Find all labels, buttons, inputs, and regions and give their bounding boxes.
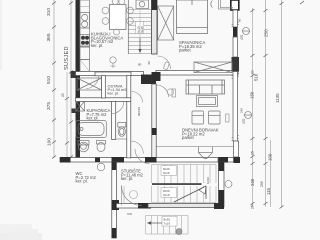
right wall window upper [233, 10, 238, 27]
lower stairs upper flight treads [152, 165, 217, 184]
wall bottom right corner dark [234, 157, 241, 163]
dining chair top b [119, 0, 125, 5]
svg-text:910: 910 [46, 76, 52, 84]
wc north line [116, 138, 127, 140]
stair hall label [121, 169, 144, 182]
closet west wall [102, 76, 106, 99]
stair railing line [127, 0, 129, 54]
svg-text:9x19: 9x19 [163, 171, 170, 175]
svg-text:375: 375 [46, 102, 52, 110]
living south edge line [157, 146, 234, 148]
svg-text:90: 90 [238, 18, 242, 22]
svg-text:9x25: 9x25 [140, 26, 144, 33]
entrance door arc [122, 186, 142, 206]
right wall lower white segment [234, 141, 239, 157]
bedroom label [179, 40, 206, 53]
wc door arc [131, 141, 144, 154]
wardrobe X left [158, 6, 174, 40]
wall shelf left [172, 89, 176, 97]
top landing fixture [136, 0, 149, 9]
right dimension line fourth [270, 140, 272, 207]
exterior steps circle [176, 229, 182, 235]
svg-text:100: 100 [268, 153, 273, 161]
svg-text:470: 470 [240, 34, 244, 40]
entrance south wall [116, 204, 148, 209]
exterior steps treads [146, 216, 189, 235]
hatched wall block kitchen/living corner [141, 75, 156, 85]
dining table [110, 5, 127, 30]
left exterior wall [76, 0, 81, 162]
ostava east wall [127, 76, 131, 99]
stair flight label box [136, 22, 144, 34]
bedroom south wall [156, 71, 238, 76]
section circle upper right [242, 28, 250, 35]
svg-text:parket: parket [182, 135, 194, 140]
svg-text:9x19: 9x19 [163, 193, 170, 197]
stair break diagonal [174, 186, 206, 202]
svg-text:115: 115 [266, 187, 271, 195]
svg-text:7x19: 7x19 [164, 221, 171, 225]
living west wall [152, 84, 156, 160]
toilet [118, 123, 126, 137]
right dimension line inner [252, 8, 254, 207]
svg-text:365: 365 [46, 33, 52, 41]
entrance south wall dark block [138, 203, 151, 209]
main south wall band [60, 158, 218, 163]
kitchen sink [80, 13, 90, 29]
wall bottom right connector [219, 158, 234, 163]
svg-text:150: 150 [250, 91, 255, 99]
bathroom label [87, 108, 111, 121]
divider wall dark top [152, 0, 158, 10]
svg-text:SUSJED: SUSJED [64, 46, 70, 70]
entrance floor circle [130, 191, 138, 199]
drain mark [72, 109, 76, 114]
svg-text:ker. pl.: ker. pl. [121, 176, 133, 181]
stair mid landing bold line [152, 183, 202, 185]
svg-text:ker. pl.: ker. pl. [76, 179, 88, 184]
south wall dark block left [112, 157, 125, 163]
radiator right [226, 114, 230, 122]
armchair right [209, 111, 221, 124]
svg-text:310: 310 [46, 8, 52, 16]
stair flight labels lower [161, 166, 177, 176]
svg-text:220: 220 [250, 178, 255, 186]
kitchen room label [91, 32, 123, 48]
section circle mid right [244, 112, 252, 119]
fireplace niche [199, 147, 213, 159]
stair hall east wall dark top [219, 162, 225, 171]
svg-text:ker. pl.: ker. pl. [87, 116, 99, 121]
exterior steps labels [162, 216, 177, 226]
bedroom door leaf [163, 62, 169, 70]
kitchen fridge [80, 60, 90, 72]
living door arc [157, 85, 169, 97]
page edge artifacts [0, 224, 32, 240]
hall closet X [77, 78, 102, 90]
bedroom NE corner step wall [218, 0, 233, 9]
entrance west wall dark mid [112, 200, 120, 210]
manhole circle lower right [225, 181, 232, 188]
wall bottom right connector dark left [219, 157, 229, 163]
dining chair left1 [102, 7, 109, 14]
svg-text:20: 20 [251, 70, 255, 74]
stairs/kitchen divider wall [152, 0, 158, 54]
chimney block top right [231, 0, 239, 10]
washing machine [76, 102, 85, 112]
armchair left [192, 111, 204, 124]
wc east wall [127, 101, 131, 157]
svg-text:100: 100 [47, 138, 53, 146]
stair hall south wall dark right [214, 203, 224, 209]
svg-text:90/210: 90/210 [137, 106, 141, 116]
sofa [186, 80, 225, 94]
left dimension labels [46, 8, 65, 146]
left dimension line outer [53, 0, 55, 158]
svg-text:250: 250 [264, 29, 269, 37]
svg-text:25: 25 [251, 205, 255, 209]
entrance west wall dark top [112, 162, 117, 170]
dining chair right2 [127, 18, 134, 25]
right wall solid upper [233, 27, 238, 37]
left dimension line inner [70, 0, 72, 158]
ostava label [108, 84, 127, 96]
svg-text:VIS: VIS [127, 212, 132, 216]
corridor door arc lower [135, 149, 150, 164]
svg-text:295: 295 [260, 181, 264, 187]
manhole circle left [97, 163, 105, 171]
right wall window frame ticks [232, 22, 240, 141]
left dimension ticks [52, 2, 73, 159]
left dimension line mid [66, 72, 68, 158]
svg-text:1135: 1135 [275, 93, 280, 103]
south wall dark block mid [145, 157, 157, 163]
right dimension ticks [251, 2, 284, 209]
stair hall south wall [148, 204, 219, 208]
svg-text:ker. pl.: ker. pl. [108, 91, 119, 96]
bedroom closet X long [194, 62, 232, 73]
bathtub [76, 121, 107, 138]
bath east wall [112, 101, 116, 139]
bedside chair arc [211, 1, 213, 8]
stair down arrow [138, 38, 141, 53]
top right corner tick [300, 1, 304, 4]
svg-text:470: 470 [242, 118, 246, 124]
pilaster at bath corner [71, 71, 76, 78]
kitchen south wall [76, 72, 144, 76]
kitchen stove [80, 35, 90, 47]
bedroom door arc [158, 56, 171, 69]
wc label outside [76, 171, 97, 184]
entrance west wall dark bottom [112, 228, 117, 238]
right dimension labels [240, 29, 281, 209]
svg-text:parket: parket [179, 48, 191, 53]
stair hall east wall dark bottom [219, 190, 225, 207]
kitchen pendant lamp [110, 57, 116, 68]
corridor upper door arc [132, 92, 143, 103]
svg-text:25: 25 [251, 151, 255, 155]
svg-text:ker. pl.: ker. pl. [91, 43, 103, 48]
dining chair left2 [102, 18, 109, 25]
entrance west wall [112, 162, 117, 238]
right dimension line outer [281, 0, 283, 207]
coffee table [197, 96, 218, 107]
stair treads upper flight [128, 10, 151, 54]
bedroom south wall dark block [152, 72, 161, 81]
svg-text:80: 80 [138, 63, 142, 67]
bath door arc [112, 102, 124, 114]
south wall dark block far left [60, 157, 71, 163]
right wall window lower [233, 72, 238, 142]
bed [177, 0, 208, 34]
stair mid divider [139, 10, 141, 54]
right wall hatched block [232, 57, 240, 72]
stair hall east wall [219, 162, 225, 207]
kitchen lower cabinet [80, 47, 90, 60]
right wall mid white [233, 37, 238, 57]
dining chair top a [112, 0, 118, 5]
bath north wall [76, 98, 131, 102]
right dimension line middle [265, 0, 267, 207]
svg-text:20: 20 [61, 93, 65, 97]
svg-text:240: 240 [240, 108, 244, 113]
living room label [182, 128, 219, 141]
bidet [97, 141, 106, 152]
living west wall dark marker [152, 128, 157, 135]
lower stairs lower flight treads [152, 186, 217, 203]
washbasin [78, 141, 89, 152]
ostava top wall [95, 72, 131, 76]
ostava door arc [86, 76, 99, 89]
svg-text:10/10: 10/10 [206, 177, 210, 184]
svg-text:80: 80 [147, 61, 151, 65]
dining chair bottom [114, 29, 120, 35]
south wall small dark jamb [95, 158, 100, 163]
dining chair right1 [127, 7, 134, 14]
kitchen counter [80, 0, 90, 47]
svg-text:510: 510 [254, 73, 259, 81]
exterior steps arrow [147, 221, 162, 224]
